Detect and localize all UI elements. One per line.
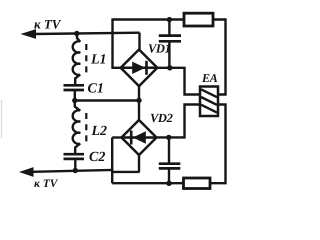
capacitor (VD2 filter, bottom) bbox=[159, 164, 181, 169]
wire right bus upper segment bbox=[219, 18, 226, 94]
wire EA lower-left vertical down to VD2 right line bbox=[155, 105, 201, 138]
inductor L2 core dashed line bbox=[85, 113, 87, 141]
svg-text:C1: C1 bbox=[88, 82, 104, 97]
wire vertical at x112 from VD2 left corner down to bottom rail bbox=[111, 138, 113, 184]
wire VD1 right corner to EA upper-left vertical bbox=[156, 68, 201, 95]
wire down from к TV line to VD1 top corner bbox=[138, 33, 140, 51]
node: junction dot top cap on top rail bbox=[167, 17, 172, 22]
svg-text:к TV: к TV bbox=[34, 17, 62, 32]
inductor L1 core dashed line bbox=[85, 44, 87, 72]
wire bottom rail to resistor bbox=[112, 182, 184, 184]
wire vertical from top rail down to VD1 left stub bbox=[111, 18, 113, 67]
svg-text:L1: L1 bbox=[90, 53, 107, 68]
wire VD2 filter cap lower lead bbox=[168, 170, 170, 184]
wire top capacitor upper lead bbox=[168, 20, 170, 35]
wire C1 bottom to mid junction bbox=[74, 91, 76, 101]
wire VD1 bottom corner to mid junction to VD2 top corner bbox=[138, 85, 140, 121]
wire top capacitor lower lead to VD1 right line bbox=[168, 43, 170, 69]
svg-text:VD2: VD2 bbox=[150, 111, 173, 125]
node: junction dot C1 / mid line bbox=[72, 98, 77, 103]
svg-text:к TV: к TV bbox=[34, 178, 59, 190]
wire left column top: junction to L1 bbox=[77, 34, 80, 42]
svg-text:EA: EA bbox=[201, 71, 218, 85]
node: junction dot top left column bbox=[74, 31, 79, 36]
wire L2 bottom to C2 top bbox=[75, 143, 80, 153]
node: junction dot C2 / bottom к TV line bbox=[73, 168, 78, 173]
wire к TV bottom line bbox=[32, 170, 113, 172]
wire VD1 left corner stub bbox=[111, 67, 122, 69]
wire mid line from C1 junction to bridge junction bbox=[75, 99, 139, 101]
wire top rail from left corner to right corner bbox=[113, 18, 226, 20]
diode bridge VD2 bbox=[122, 120, 157, 155]
node: junction dot bottom cap on bottom rail bbox=[166, 181, 171, 186]
electromagnetic actuator EA bbox=[200, 87, 218, 117]
svg-text:VD1: VD1 bbox=[148, 42, 170, 56]
wire VD2 filter cap upper lead bbox=[168, 137, 170, 163]
inductor L1 bbox=[73, 41, 81, 75]
wire VD2 left corner stub bbox=[112, 136, 122, 138]
node: junction dot bridges mid bbox=[136, 98, 141, 103]
capacitor C2 bbox=[64, 154, 85, 159]
node: junction dot top cap on VD1 right line bbox=[167, 65, 172, 70]
wire к TV top line bbox=[34, 33, 140, 34]
wire mid junction down to L2 bbox=[75, 101, 80, 111]
capacitor (VD1 filter, top) bbox=[159, 36, 181, 42]
arrow к TV bottom bbox=[19, 167, 34, 177]
svg-text:C2: C2 bbox=[89, 150, 105, 165]
resistor (top right) bbox=[184, 13, 213, 26]
wire short line from x112 vertical to VD2 bottom lead bbox=[112, 171, 139, 173]
scan artifact left edge bbox=[1, 100, 3, 138]
resistor (bottom right) bbox=[184, 178, 211, 189]
wire VD2 bottom corner lead bbox=[138, 154, 140, 172]
wire C2 bottom to bottom junction bbox=[74, 160, 76, 171]
capacitor C1 bbox=[64, 85, 85, 90]
wire L1 bottom to C1 top bbox=[75, 74, 80, 84]
svg-text:L2: L2 bbox=[91, 124, 108, 139]
inductor L2 bbox=[73, 110, 81, 144]
wire bottom rail resistor to right bus bbox=[209, 105, 226, 184]
node: junction dot bottom cap on VD2 right line bbox=[166, 135, 171, 140]
diode bridge VD1 bbox=[121, 50, 158, 87]
arrow к TV top bbox=[21, 29, 37, 39]
